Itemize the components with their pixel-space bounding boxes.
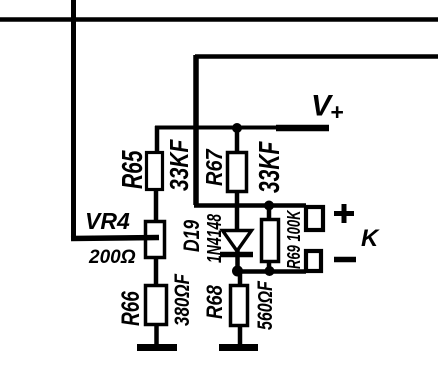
- svg-text:D19: D19: [180, 220, 204, 252]
- svg-text:R69 100K: R69 100K: [284, 209, 305, 269]
- wire R69 top riser: [267, 205, 272, 219]
- label R67: [201, 148, 228, 186]
- svg-text:33KF: 33KF: [254, 141, 286, 193]
- wire diode to bottom node: [235, 250, 240, 272]
- label 33KF left: [165, 138, 195, 191]
- svg-text:33KF: 33KF: [165, 138, 195, 191]
- label K: [361, 225, 380, 252]
- svg-text:200Ω: 200Ω: [88, 247, 136, 268]
- wire left vertical line: [71, 0, 76, 238]
- svg-text:380ΩF: 380ΩF: [171, 273, 194, 326]
- wire R68 top riser: [238, 270, 243, 285]
- resistor R67: [228, 153, 247, 192]
- terminal K minus: [306, 251, 321, 271]
- wire R69 bottom riser: [267, 262, 272, 272]
- resistor R68: [231, 286, 248, 326]
- wire R68 to ground: [238, 326, 243, 347]
- ground under R68: [219, 344, 258, 351]
- svg-text:R67: R67: [201, 148, 228, 186]
- node junction dot R69 bottom: [265, 266, 275, 276]
- label V+: [311, 90, 343, 126]
- svg-text:560ΩF: 560ΩF: [253, 280, 277, 330]
- wire R66 to ground: [154, 325, 159, 347]
- wire VR4 wiper arm: [71, 238, 159, 239]
- svg-text:VR4: VR4: [85, 208, 130, 234]
- label 380 ohm F: [171, 273, 194, 326]
- label R66: [117, 291, 145, 326]
- label VR4: [85, 208, 130, 234]
- resistor R65: [147, 153, 163, 190]
- label 200 ohm: [88, 247, 136, 268]
- wire R67 top riser: [235, 128, 240, 152]
- resistor R69: [262, 220, 279, 262]
- label D19: [180, 220, 204, 252]
- svg-text:R65: R65: [117, 150, 149, 189]
- wire top bus line: [0, 17, 438, 22]
- svg-text:R66: R66: [117, 291, 145, 326]
- wire bottom horizontal to terminal: [237, 269, 306, 274]
- label 560 ohm F: [253, 280, 277, 330]
- wire R65 top riser: [155, 126, 160, 152]
- node junction dot diode bottom: [232, 266, 243, 277]
- svg-text:+: +: [330, 99, 343, 125]
- label R68: [204, 285, 228, 319]
- wire mid horizontal to terminal: [194, 203, 306, 208]
- label terminal minus sign: [334, 257, 356, 263]
- wire R67 to diode: [235, 192, 240, 230]
- terminal K plus: [306, 207, 323, 230]
- resistor R66: [146, 286, 167, 325]
- wire second bus line: [195, 54, 438, 59]
- label 33KF right: [254, 141, 286, 193]
- wire V+ rail: [155, 126, 280, 130]
- wire VR4 to R66: [154, 258, 159, 285]
- node junction dot R69 top: [264, 201, 274, 211]
- potentiometer VR4: [146, 222, 165, 258]
- svg-text:1N4148: 1N4148: [202, 214, 225, 263]
- svg-text:R68: R68: [204, 285, 228, 319]
- svg-text:K: K: [361, 225, 380, 252]
- diode D19: [220, 231, 253, 255]
- label R65: [117, 150, 149, 189]
- wire V+ bold segment: [276, 125, 329, 132]
- ground under R66: [137, 344, 177, 351]
- wire R65 to VR4: [154, 190, 159, 221]
- wire vertical drop from second bus: [193, 55, 199, 205]
- label R69 100K: [284, 209, 305, 269]
- label 1N4148: [202, 214, 225, 263]
- label terminal plus sign: [334, 204, 354, 223]
- node junction dot V+ / R67: [232, 123, 242, 133]
